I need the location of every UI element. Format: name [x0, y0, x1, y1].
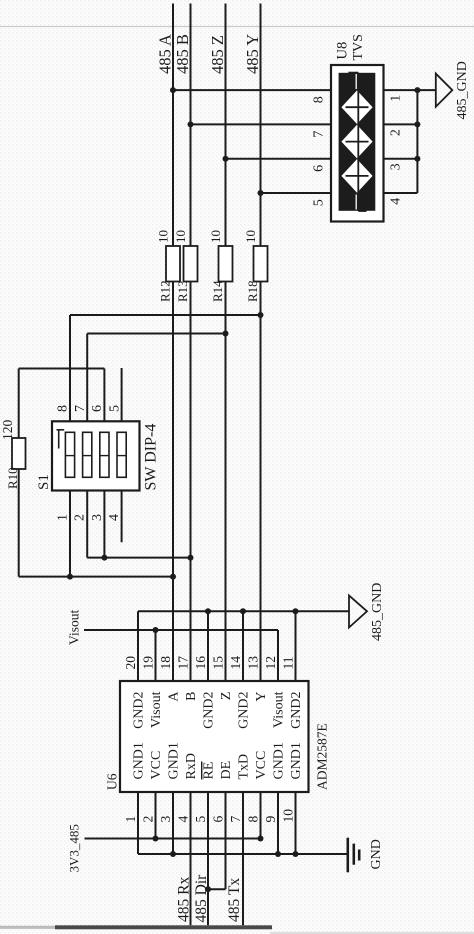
TVS diode array U8 body — [331, 65, 384, 222]
wire U6 pin 10 stub — [295, 792, 297, 854]
svg-text:GND1: GND1 — [289, 742, 304, 779]
wire U6 pin 1 stub — [137, 792, 139, 854]
wire 485_B to U8 pin 7 — [191, 123, 332, 125]
svg-text:2: 2 — [73, 514, 88, 521]
svg-text:TVS: TVS — [351, 34, 366, 60]
svg-text:1: 1 — [389, 95, 404, 102]
svg-text:Visout: Visout — [272, 691, 287, 728]
resistor R12 body — [166, 246, 180, 282]
svg-text:U8: U8 — [335, 42, 351, 60]
svg-text:VCC: VCC — [254, 751, 269, 780]
svg-text:GND: GND — [369, 839, 384, 869]
svg-text:GND2: GND2 — [202, 692, 217, 729]
wire 485_Y to S1 pin 8 — [70, 314, 261, 316]
svg-text:485 Y: 485 Y — [243, 34, 262, 74]
svg-text:7: 7 — [312, 131, 327, 138]
svg-text:Visout: Visout — [149, 691, 164, 728]
resistor R18 body — [254, 246, 268, 282]
svg-text:GND1: GND1 — [272, 742, 287, 779]
junction pin2 connector — [414, 121, 420, 127]
wire U6 pin 7 Tx line — [242, 792, 244, 925]
wire U8 pin 1 to 485_GND — [384, 89, 436, 91]
junction pin10 GND — [293, 851, 299, 857]
svg-text:20: 20 — [123, 656, 138, 670]
wire S1 pins 2,3 to 485_B — [87, 557, 190, 559]
svg-text:485 A: 485 A — [156, 34, 175, 74]
wire Visout net — [84, 629, 278, 631]
svg-text:U6: U6 — [105, 773, 120, 790]
U6 pin 5 label RE with overline — [202, 762, 217, 780]
wire U6 pin 3 stub — [172, 792, 174, 854]
wire net 485_Y vertical bus — [260, 4, 262, 247]
svg-text:DE: DE — [219, 761, 234, 780]
power symbol 485_GND top — [436, 74, 453, 107]
svg-text:3: 3 — [389, 163, 404, 170]
svg-text:485 Dir: 485 Dir — [193, 874, 210, 923]
svg-text:R13: R13 — [175, 280, 190, 302]
wire pin6 to pin5 join — [208, 888, 226, 890]
svg-text:Z: Z — [219, 692, 234, 701]
junction pin1 connector — [414, 87, 420, 93]
wire vertical connector pins 1-4 — [416, 90, 418, 193]
power symbol 485_GND mid — [349, 596, 367, 628]
svg-text:485 Z: 485 Z — [208, 35, 227, 74]
svg-text:R12: R12 — [158, 280, 173, 302]
wire 485_Z to S1 pin 7 — [87, 333, 225, 335]
svg-text:SW DIP-4: SW DIP-4 — [143, 424, 160, 491]
wire U8 pin 2 right — [384, 123, 418, 125]
junction 485_Z / pin6 wire — [223, 156, 229, 162]
svg-text:6: 6 — [312, 165, 327, 172]
wire U6 pin 11 stub — [295, 611, 297, 681]
wire GND2 net (pin20 to 485_GND) — [138, 610, 349, 612]
svg-text:5: 5 — [193, 816, 208, 823]
wire S1 pin 6 vertical — [103, 369, 105, 422]
svg-text:7: 7 — [228, 816, 243, 823]
svg-text:Visout: Visout — [67, 610, 82, 645]
svg-text:10: 10 — [243, 230, 258, 243]
svg-text:4: 4 — [176, 816, 191, 823]
wire S1 pin 1 vertical — [69, 491, 71, 577]
wire U8 pin 3 right — [384, 158, 418, 160]
wire net 485_B bus lower segment — [190, 282, 192, 682]
svg-text:R18: R18 — [245, 280, 260, 302]
svg-text:13: 13 — [246, 656, 261, 670]
junction 485_B / pin7 wire — [188, 121, 194, 127]
junction pin3 connector — [414, 156, 420, 162]
wire 485_A to U8 pin 8 — [173, 89, 331, 91]
wire U6 pin 2 stub — [155, 792, 157, 839]
svg-text:GND2: GND2 — [289, 692, 304, 729]
svg-text:120: 120 — [0, 420, 15, 441]
junction 485_B / S1 wire — [188, 555, 194, 561]
junction 485_Z / S1 pin7 — [223, 331, 229, 337]
svg-text:VCC: VCC — [149, 751, 164, 780]
svg-text:7: 7 — [73, 405, 88, 412]
svg-text:16: 16 — [193, 656, 208, 670]
wire S1 pin 2 vertical — [86, 491, 88, 558]
wire net 485_B vertical bus — [190, 4, 192, 247]
junction 485_A / R10 wire — [170, 574, 176, 580]
wire net 485_Y bus lower segment — [260, 282, 262, 682]
svg-text:14: 14 — [228, 656, 243, 670]
junction pin3 GND — [170, 851, 176, 857]
svg-text:8: 8 — [246, 816, 261, 823]
svg-text:2: 2 — [141, 816, 156, 823]
svg-text:10: 10 — [156, 230, 171, 243]
svg-text:10: 10 — [173, 230, 188, 243]
wire GND1 net — [138, 853, 348, 855]
wire U6 pin 16 stub — [207, 611, 209, 681]
svg-text:B: B — [184, 692, 199, 701]
svg-text:S1: S1 — [36, 474, 52, 490]
wire U6 pin 14 stub — [242, 611, 244, 681]
wire U6 pin 5 Dir line — [207, 792, 209, 925]
junction pin5/pin6 — [205, 886, 211, 892]
wire net 485_Z vertical bus — [225, 4, 227, 247]
svg-text:4: 4 — [389, 198, 404, 205]
junction 485_A / pin8 wire — [170, 87, 176, 93]
svg-text:3: 3 — [90, 514, 105, 521]
svg-text:RxD: RxD — [184, 753, 199, 779]
ground symbol GND — [348, 838, 359, 873]
svg-text:15: 15 — [211, 656, 226, 670]
svg-text:485 Rx: 485 Rx — [175, 877, 192, 922]
junction pin19 Visout — [153, 627, 159, 633]
wire S1 pin 6 to R10 — [19, 368, 105, 370]
wire S1 pin 7 vertical — [86, 334, 88, 422]
svg-text:2: 2 — [389, 129, 404, 136]
svg-text:18: 18 — [158, 656, 173, 670]
svg-text:1: 1 — [123, 816, 138, 823]
svg-text:10: 10 — [208, 230, 223, 243]
wire S1 pin 8 vertical — [69, 315, 71, 421]
wire U6 pin 8 stub — [260, 792, 262, 839]
svg-text:GND1: GND1 — [167, 742, 182, 779]
svg-text:485 Tx: 485 Tx — [226, 878, 243, 922]
svg-text:17: 17 — [176, 656, 191, 670]
wire U8 pin 4 right — [384, 192, 418, 194]
wire U6 pin 19 stub — [155, 630, 157, 681]
svg-text:GND2: GND2 — [237, 692, 252, 729]
junction pin2 3V3 — [153, 836, 159, 842]
wire U6 pin 12 stub — [277, 630, 279, 681]
svg-text:9: 9 — [263, 816, 278, 823]
wire 485_Y to U8 pin 5 — [261, 192, 332, 194]
svg-text:485_GND: 485_GND — [370, 583, 385, 641]
junction S1 pin1 — [67, 574, 73, 580]
svg-text:GND2: GND2 — [132, 692, 147, 729]
wire R10 to 485_A — [19, 576, 173, 578]
junction pin14 GND2 — [240, 608, 246, 614]
svg-text:10: 10 — [281, 809, 296, 823]
junction pin16 GND2 — [205, 608, 211, 614]
junction 485_Y / pin5 wire — [258, 190, 264, 196]
junction pin11 GND2 — [293, 608, 299, 614]
resistor R14 body — [219, 246, 233, 282]
wire net 485_A bus lower segment — [172, 282, 174, 682]
wire S1 pin 5 stub — [121, 368, 123, 421]
wire 485_Z to U8 pin 6 — [226, 158, 332, 160]
wire net 485_A vertical bus — [172, 4, 174, 247]
bottom border band — [0, 925, 474, 934]
svg-text:8: 8 — [56, 405, 71, 412]
op-amp U6 ADM2587E body — [120, 681, 309, 792]
svg-text:8: 8 — [312, 96, 327, 103]
svg-text:12: 12 — [263, 656, 278, 670]
svg-text:ADM2587E: ADM2587E — [315, 723, 330, 790]
svg-text:TxD: TxD — [237, 754, 252, 780]
wire R10 bottom lead — [18, 469, 20, 577]
svg-text:5: 5 — [107, 405, 122, 412]
svg-text:485_GND: 485_GND — [455, 61, 470, 119]
wire net 485_Z bus lower segment — [225, 282, 227, 682]
svg-text:Y: Y — [254, 692, 269, 702]
svg-text:6: 6 — [90, 405, 105, 412]
junction pin9 GND — [275, 851, 281, 857]
svg-text:A: A — [167, 691, 182, 702]
wire 3V3_485 net — [85, 838, 261, 840]
svg-text:6: 6 — [211, 816, 226, 823]
wire U6 pin 20 stub — [137, 611, 139, 681]
junction pin8 3V3 — [258, 836, 264, 842]
wire S1 pin 3 vertical — [103, 491, 105, 558]
resistor R13 body — [184, 246, 198, 282]
wire U6 pin 4 RxD line — [190, 792, 192, 925]
wire U6 pin 9 stub — [277, 792, 279, 854]
svg-text:485 B: 485 B — [173, 34, 192, 74]
svg-text:5: 5 — [312, 199, 327, 206]
svg-text:19: 19 — [141, 656, 156, 670]
svg-text:1: 1 — [56, 514, 71, 521]
junction 485_Y / S1 pin8 — [258, 312, 264, 318]
switch S1 SW DIP-4 body — [52, 421, 140, 490]
svg-text:3: 3 — [158, 816, 173, 823]
svg-text:R14: R14 — [210, 280, 225, 302]
junction S1 pin3 — [101, 555, 107, 561]
svg-text:3V3_485: 3V3_485 — [67, 824, 82, 872]
svg-text:RE: RE — [202, 762, 217, 780]
faint top rule — [0, 26, 474, 28]
wire R10 top lead — [18, 369, 20, 439]
svg-text:GND1: GND1 — [132, 742, 147, 779]
svg-text:11: 11 — [281, 657, 296, 670]
resistor R10 body — [12, 438, 26, 469]
wire S1 pin 4 stub — [121, 491, 123, 543]
wire U6 pin 6 stub — [225, 792, 227, 889]
svg-text:4: 4 — [107, 514, 122, 521]
